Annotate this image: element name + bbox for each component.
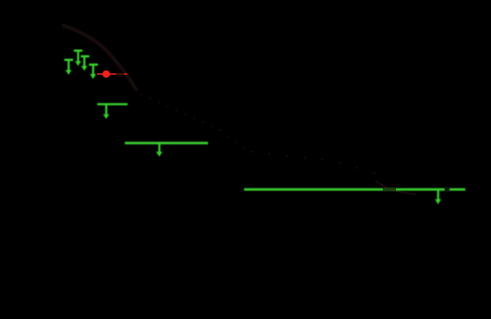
green bar B2 — [97, 103, 127, 119]
model curve end segment — [375, 181, 416, 194]
model curve solid segment — [62, 25, 137, 91]
green bar B3 — [125, 142, 208, 157]
curve crossing B4 — [383, 188, 396, 191]
upper limit UL3 — [81, 55, 90, 70]
upper limit UL2 — [74, 50, 83, 66]
upper limit UL4 — [89, 64, 98, 80]
green bar B4 long — [244, 188, 465, 204]
model curve dashed segment — [140, 94, 378, 175]
red point R1 — [102, 70, 110, 78]
red point R1 error bar — [97, 73, 127, 75]
upper limit UL1 — [64, 59, 73, 75]
dark notch on B4 — [445, 188, 450, 191]
